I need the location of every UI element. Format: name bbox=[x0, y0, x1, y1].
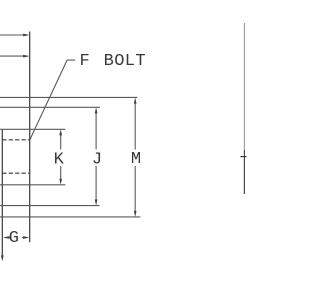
dimension G arrows bbox=[3, 236, 29, 239]
dimension J line and arrows bbox=[95, 107, 98, 205]
dimension M line and arrows bbox=[134, 98, 137, 218]
right view: outer edge line (cropped) bbox=[243, 23, 245, 150]
extension line K top bbox=[0, 128, 65, 130]
dimension arrow A (top, cropped at left) bbox=[0, 34, 29, 37]
svg-text:F: F bbox=[80, 52, 90, 71]
bolt hole hidden line (lower) bbox=[2, 172, 29, 174]
bolt hole hidden line (upper) bbox=[2, 139, 29, 141]
svg-text:BOLT: BOLT bbox=[104, 52, 146, 71]
extension line M bottom bbox=[0, 216, 140, 218]
leader line to bolt hole bbox=[30, 60, 75, 140]
extension line J bottom bbox=[0, 205, 100, 207]
svg-text:M: M bbox=[131, 150, 141, 169]
cropped down-arrow at bottom of hub extension bbox=[1, 255, 4, 261]
dimension arrow B (second, cropped at left) bbox=[0, 55, 29, 58]
svg-text:J: J bbox=[92, 150, 102, 169]
right view: centerline tick bbox=[240, 156, 246, 158]
flange face line (object, vertical) bbox=[29, 32, 31, 243]
svg-text:K: K bbox=[54, 150, 65, 169]
extension line J top bbox=[0, 106, 100, 108]
hub left edge / extension line bbox=[1, 129, 3, 256]
dimension K line and arrows bbox=[59, 129, 62, 185]
svg-text:G: G bbox=[9, 229, 19, 248]
extension line K bottom bbox=[0, 184, 65, 186]
extension line M top bbox=[0, 96, 137, 98]
